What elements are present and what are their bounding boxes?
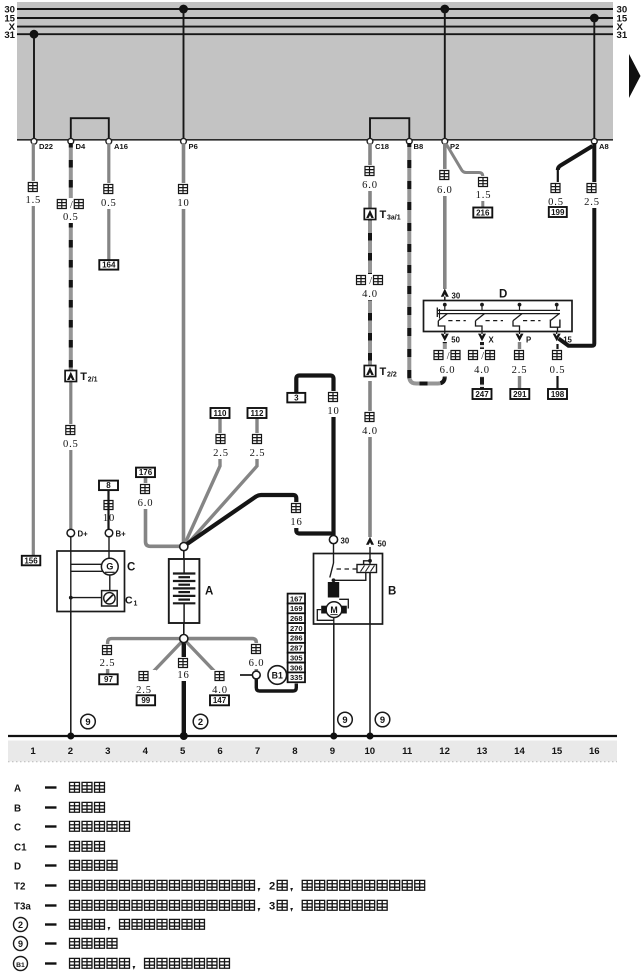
svg-text:3: 3 xyxy=(294,394,299,403)
bridge C18-B8 xyxy=(370,118,409,140)
svg-text:270: 270 xyxy=(290,624,303,633)
svg-text:0.5: 0.5 xyxy=(63,212,79,223)
wire brown 1.5 from D22 to 156 xyxy=(32,143,35,556)
wire label black 0.5 label A8 branch xyxy=(544,182,569,208)
svg-text:216: 216 xyxy=(476,208,490,217)
svg-text:/: / xyxy=(481,351,484,362)
wire label red 1.5 label xyxy=(471,176,496,201)
legend row T2 xyxy=(14,880,425,893)
terminus box 110 xyxy=(211,408,230,418)
svg-text:99: 99 xyxy=(141,696,150,705)
wire ground starter 50-coil to track 10 xyxy=(369,624,371,735)
wire ground from alternator to track 2 xyxy=(70,612,72,736)
wire label black 2.5 label A8 xyxy=(580,182,605,208)
wire brown 6.0 to B1 xyxy=(187,639,256,671)
battery A xyxy=(169,559,214,623)
terminal D22 xyxy=(31,138,53,151)
terminus box 198 xyxy=(548,389,567,399)
wire black 2.5 from A8 to ignition switch 15 xyxy=(559,143,595,346)
wire ground starter motor to track 9 xyxy=(333,624,335,735)
track number strip xyxy=(8,741,617,762)
wire label brown 1.5 label xyxy=(21,181,46,206)
wire red 6.0 from 176 to battery junction xyxy=(146,477,181,546)
svg-text:2: 2 xyxy=(18,920,23,930)
svg-text:2/1: 2/1 xyxy=(88,377,98,384)
wire brown 2.5 to 97 xyxy=(108,639,181,674)
terminus box 147 xyxy=(210,695,229,705)
terminal A16 xyxy=(106,138,128,151)
legend row C xyxy=(14,821,130,834)
terminus box 112 xyxy=(248,408,267,418)
legend row (9) xyxy=(14,937,118,951)
terminal B8 xyxy=(406,138,423,151)
ignition switch terminal 30 xyxy=(441,289,461,301)
terminus box 97 xyxy=(99,674,118,684)
svg-text:112: 112 xyxy=(251,409,264,418)
wire label black/yellow 4.0 label xyxy=(466,349,498,376)
wire label black 16 ground label xyxy=(174,657,192,681)
wire label brown 2.5 label 99 xyxy=(132,670,157,696)
terminus box 3 xyxy=(287,393,305,403)
svg-text:9: 9 xyxy=(342,714,347,725)
ground link B1 wiring xyxy=(240,675,296,691)
svg-text:C: C xyxy=(127,562,135,574)
bottom track rail xyxy=(8,735,617,737)
bridge D4-A16 xyxy=(71,118,109,140)
wire black 0.5 from 15 to 198 xyxy=(556,344,558,389)
svg-text:7: 7 xyxy=(255,746,260,757)
svg-text:2.5: 2.5 xyxy=(100,658,116,669)
svg-text:14: 14 xyxy=(514,746,525,757)
svg-text:10: 10 xyxy=(364,746,375,757)
wire red 4.0 from T2/2 to starter 50 xyxy=(368,381,372,537)
svg-text:2.5: 2.5 xyxy=(213,448,229,459)
legend row C1 xyxy=(14,841,105,854)
svg-text:B+: B+ xyxy=(116,530,127,539)
svg-text:M: M xyxy=(330,605,337,615)
ground symbol 9 (starter motor ground) xyxy=(338,712,353,727)
svg-text:8: 8 xyxy=(292,746,298,757)
ignition switch contact 50 xyxy=(438,303,466,345)
svg-text:T: T xyxy=(380,366,387,378)
wire label red 2.5 label 112 xyxy=(245,433,270,459)
wire label black 10 label B+ xyxy=(100,499,118,524)
svg-text:2: 2 xyxy=(269,881,275,893)
svg-text:6.0: 6.0 xyxy=(138,498,154,509)
wire brown 2.5 to 99 xyxy=(150,642,182,696)
svg-text:B8: B8 xyxy=(414,142,424,151)
terminus box 247 xyxy=(473,389,492,399)
svg-text:31: 31 xyxy=(617,30,628,41)
svg-text:C1: C1 xyxy=(14,842,27,853)
svg-text:D4: D4 xyxy=(76,142,86,151)
bus band (gray) xyxy=(17,2,613,140)
legend row B xyxy=(14,802,105,815)
svg-text:/: / xyxy=(369,276,372,287)
bus line 15 xyxy=(4,14,628,25)
svg-text:4: 4 xyxy=(143,746,149,757)
svg-text:2.5: 2.5 xyxy=(584,197,600,208)
wire label brown 2.5 label 97 xyxy=(95,644,120,669)
wire label red 6.0 label C18 xyxy=(358,165,383,191)
wire label red 4.0 label xyxy=(358,411,383,437)
svg-text:2.5: 2.5 xyxy=(250,448,266,459)
wire black 10 from 3 to starter 30 xyxy=(296,376,333,536)
svg-text:D22: D22 xyxy=(39,142,53,151)
wire label red/black 4.0 label xyxy=(354,274,386,300)
svg-text:D+: D+ xyxy=(78,530,89,539)
svg-text:/: / xyxy=(70,200,73,211)
svg-text:198: 198 xyxy=(551,390,565,399)
wire grey 2.5 from P to 291 xyxy=(518,342,521,389)
wire red/black 6.0 from B8 to ignition switch 50 xyxy=(409,143,445,384)
ground symbol 2 (battery ground) xyxy=(193,714,208,729)
svg-text:199: 199 xyxy=(551,208,565,217)
alternator terminal B+ xyxy=(105,529,126,538)
terminus box 8 xyxy=(99,481,118,491)
svg-text:4.0: 4.0 xyxy=(212,685,228,696)
ground junction dot track10 xyxy=(367,733,374,740)
ground junction dot track9 xyxy=(330,733,337,740)
starter terminal 30 xyxy=(329,536,349,546)
junction dot P2 on bus xyxy=(440,5,449,140)
bus line 31 xyxy=(4,30,628,41)
svg-text:3a/1: 3a/1 xyxy=(387,215,401,222)
svg-text:T: T xyxy=(380,209,387,221)
legend row (2) xyxy=(14,918,206,932)
alternator terminal D+ xyxy=(67,529,88,538)
starter B xyxy=(314,544,397,624)
svg-text:306: 306 xyxy=(290,663,303,672)
terminus box 156 xyxy=(22,556,41,566)
svg-text:1: 1 xyxy=(134,601,138,608)
svg-text:16: 16 xyxy=(589,746,600,757)
svg-text:B1: B1 xyxy=(272,671,283,681)
junction dot P6 on bus xyxy=(179,5,188,140)
svg-text:6.0: 6.0 xyxy=(437,185,453,196)
terminus box 291 xyxy=(510,389,529,399)
svg-text:268: 268 xyxy=(290,614,303,623)
svg-text:A: A xyxy=(205,586,213,598)
svg-text:2.5: 2.5 xyxy=(136,685,152,696)
wire red/black 4.0 from T3a/1 to T2/2 xyxy=(368,219,372,366)
connector T3a/1 xyxy=(364,209,400,222)
wire label black 10 label box3 xyxy=(324,391,342,417)
svg-text:164: 164 xyxy=(102,261,116,270)
wire red 6.0 from C18 to T3a/1 xyxy=(368,143,372,209)
svg-text:G: G xyxy=(106,562,113,572)
ignition switch contact P xyxy=(513,303,541,345)
junction dot A8 on bus xyxy=(590,14,599,140)
svg-text:15: 15 xyxy=(552,746,563,757)
svg-text:2: 2 xyxy=(198,716,203,727)
svg-text:156: 156 xyxy=(24,556,38,565)
svg-text:9: 9 xyxy=(380,714,385,725)
svg-text:1.5: 1.5 xyxy=(25,195,41,206)
svg-text:1: 1 xyxy=(30,746,36,757)
wire red 1.5 branch from P2 to 216 xyxy=(447,145,483,209)
svg-text:X: X xyxy=(489,336,495,345)
terminal D4 xyxy=(68,138,86,151)
svg-text:C: C xyxy=(125,595,133,607)
svg-text:P: P xyxy=(526,336,531,345)
ground strap B1 xyxy=(268,666,287,685)
svg-text:3: 3 xyxy=(105,746,110,757)
svg-text:8: 8 xyxy=(106,481,111,490)
wire label brown 4.0 label 147 xyxy=(208,670,233,696)
svg-text:T2: T2 xyxy=(14,881,26,892)
wire label grey 2.5 label xyxy=(507,349,532,376)
connector T2/1 xyxy=(65,371,98,384)
svg-text:4.0: 4.0 xyxy=(362,426,378,437)
wire red 6.0 from P2 to ignition switch 30 xyxy=(443,143,447,289)
svg-text:10: 10 xyxy=(177,198,189,209)
battery junction node (bottom) xyxy=(180,623,188,643)
bus line X xyxy=(9,22,624,33)
terminal P2 xyxy=(442,138,459,151)
svg-text:15: 15 xyxy=(563,336,572,345)
wire label black 16 label xyxy=(287,502,305,528)
svg-text:169: 169 xyxy=(290,604,303,613)
svg-text:C: C xyxy=(14,822,21,833)
terminus box 164 xyxy=(99,260,118,270)
wire black 16 battery junction to starter 30 xyxy=(186,495,333,545)
terminal P6 xyxy=(181,138,198,151)
svg-text:0.5: 0.5 xyxy=(101,198,117,209)
terminus box 99 xyxy=(137,695,156,705)
svg-text:/: / xyxy=(447,351,450,362)
svg-text:305: 305 xyxy=(290,653,303,662)
svg-text:50: 50 xyxy=(378,540,387,549)
ignition switch contact 15 xyxy=(550,303,572,345)
legend row D xyxy=(14,860,118,873)
starter terminal 50 xyxy=(366,537,387,549)
wire red 2.5 from 110 to battery junction xyxy=(185,418,220,544)
wire blue 0.5 from A16 to 164 xyxy=(107,143,110,260)
connector T2/2 xyxy=(364,366,397,379)
terminal C18 xyxy=(367,138,389,151)
svg-text:0.5: 0.5 xyxy=(63,439,79,450)
terminus box 199 xyxy=(549,207,567,217)
ground connector strip 167-335 xyxy=(288,594,305,683)
svg-text:13: 13 xyxy=(477,746,488,757)
svg-text:9: 9 xyxy=(18,939,23,949)
svg-text:30: 30 xyxy=(341,537,350,546)
svg-text:247: 247 xyxy=(475,390,489,399)
svg-text:30: 30 xyxy=(452,292,461,301)
svg-text:B1: B1 xyxy=(16,962,25,969)
svg-text:3: 3 xyxy=(269,901,275,913)
direction arrow xyxy=(629,54,641,98)
legend row T3a xyxy=(14,900,388,913)
battery junction node (top) xyxy=(180,543,188,560)
wire black 16 battery to ground 5 xyxy=(182,642,186,736)
svg-text:P6: P6 xyxy=(189,142,198,151)
svg-text:6.0: 6.0 xyxy=(440,365,456,376)
svg-text:1.5: 1.5 xyxy=(476,190,492,201)
svg-text:B: B xyxy=(388,586,396,598)
svg-text:6.0: 6.0 xyxy=(362,180,378,191)
wire label brown 6.0 label B1 xyxy=(244,643,269,669)
svg-text:291: 291 xyxy=(513,390,527,399)
svg-text:110: 110 xyxy=(214,409,227,418)
alternator C xyxy=(57,537,135,612)
wire label red/black 6.0 label D50 xyxy=(432,349,464,376)
svg-text:12: 12 xyxy=(439,746,450,757)
wire blue 0.5 from T2/1 to alternator D+ xyxy=(69,381,72,529)
wire label red 2.5 label 110 xyxy=(209,433,234,459)
voltage regulator C1 xyxy=(102,591,138,608)
svg-text:5: 5 xyxy=(180,746,186,757)
wire green/black 0.5 from D4 to T2/1 xyxy=(69,143,73,371)
svg-text:50: 50 xyxy=(451,336,460,345)
svg-text:2.5: 2.5 xyxy=(512,365,528,376)
svg-text:16: 16 xyxy=(177,670,189,681)
bus line 30 xyxy=(4,5,627,16)
svg-text:10: 10 xyxy=(327,406,339,417)
junction dot D22 on bus xyxy=(30,30,39,140)
svg-text:A: A xyxy=(14,783,21,794)
wire label blue 0.5 label T2/1 xyxy=(59,424,84,450)
terminus box 176 xyxy=(136,468,155,478)
svg-text:A16: A16 xyxy=(114,142,128,151)
terminus box 216 xyxy=(473,208,492,218)
legend row (B1) xyxy=(14,957,231,971)
svg-text:16: 16 xyxy=(290,517,302,528)
svg-text:C18: C18 xyxy=(375,142,389,151)
ground connection point near B1 xyxy=(252,671,260,679)
svg-text:31: 31 xyxy=(4,30,15,41)
svg-text:4.0: 4.0 xyxy=(362,289,378,300)
ground symbol 9 (starter coil ground) xyxy=(375,712,390,727)
svg-text:97: 97 xyxy=(104,675,113,684)
svg-text:9: 9 xyxy=(85,716,90,727)
svg-text:D: D xyxy=(14,861,21,872)
wire black 10 from 8 to B+ xyxy=(107,490,109,529)
svg-text:11: 11 xyxy=(402,746,413,757)
wire black 0.5 branch from A8 to 199 xyxy=(558,146,593,207)
svg-text:286: 286 xyxy=(290,634,303,643)
svg-text:T: T xyxy=(80,371,87,383)
svg-text:9: 9 xyxy=(330,746,335,757)
ground junction dot track5 xyxy=(180,732,188,740)
wire label green/black 0.5 label xyxy=(55,198,87,223)
svg-text:A8: A8 xyxy=(599,142,609,151)
wire label black 0.5 label D15 xyxy=(545,349,570,376)
terminal A8 xyxy=(591,138,608,151)
svg-text:6: 6 xyxy=(217,746,222,757)
ignition switch D xyxy=(424,289,573,332)
svg-text:6.0: 6.0 xyxy=(249,658,265,669)
svg-text:B: B xyxy=(14,803,21,814)
svg-text:P2: P2 xyxy=(450,142,459,151)
wire label red 10 label xyxy=(174,183,192,209)
svg-text:D: D xyxy=(499,289,507,301)
wire label blue 0.5 label xyxy=(97,183,122,209)
svg-text:2/2: 2/2 xyxy=(387,372,397,379)
svg-text:T3a: T3a xyxy=(14,901,31,912)
ground symbol 9 (alternator ground) xyxy=(81,714,96,729)
svg-text:147: 147 xyxy=(213,696,227,705)
wire red 2.5 from 112 to battery junction xyxy=(187,418,258,546)
wire label red 6.0 label 176 xyxy=(133,483,158,509)
svg-text:4.0: 4.0 xyxy=(474,365,490,376)
ignition switch contact X xyxy=(476,303,504,345)
wire black/yellow 4.0 from X to 247 xyxy=(480,342,484,389)
wire label red 6.0 label P2 xyxy=(433,169,458,196)
svg-text:167: 167 xyxy=(290,594,303,603)
wire brown 4.0 to 147 xyxy=(186,642,219,696)
svg-text:176: 176 xyxy=(139,468,153,477)
svg-text:0.5: 0.5 xyxy=(550,365,566,376)
svg-text:2: 2 xyxy=(68,746,73,757)
ground junction dot track2 xyxy=(67,733,74,740)
wire red 10 from P6 to battery junction xyxy=(182,143,186,543)
legend row A xyxy=(14,782,105,795)
svg-text:335: 335 xyxy=(290,673,303,682)
svg-text:287: 287 xyxy=(290,644,303,653)
